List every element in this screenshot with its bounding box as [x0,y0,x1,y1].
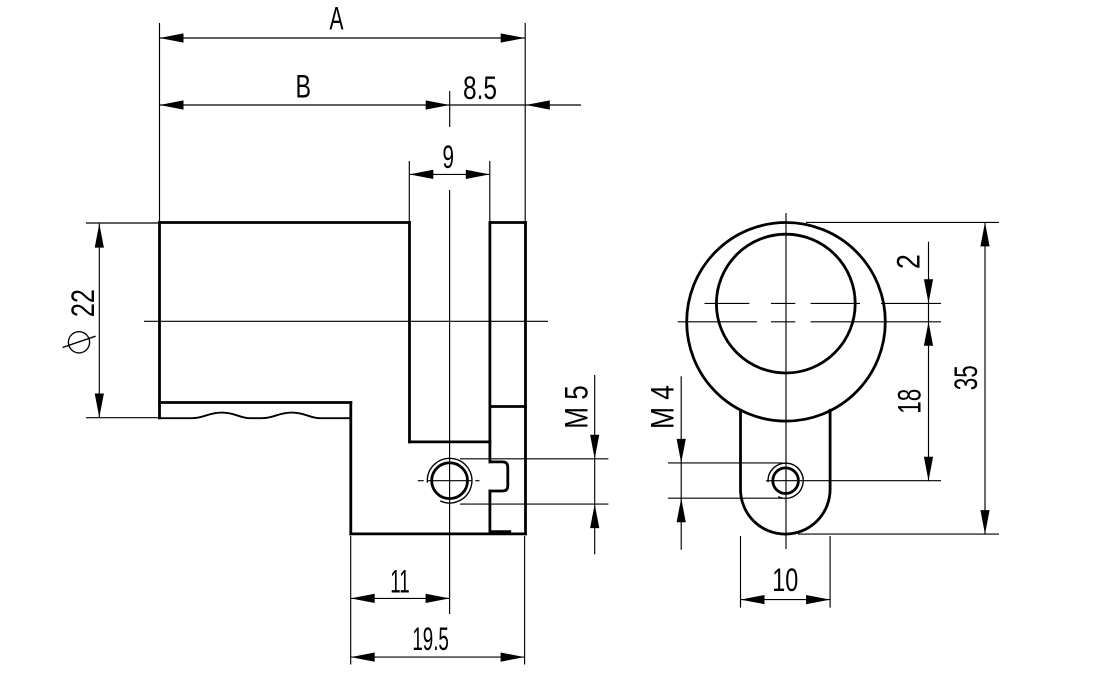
slot left wall [408,223,411,442]
dim M4 arrows [677,439,686,463]
dim 35 extension lines [798,222,999,534]
M4 hole horizontal centerline [766,480,941,482]
dim M5 extension lines [460,459,608,504]
dim M4 extension lines [668,463,783,498]
dim M5 line [594,375,596,554]
dim 19.5 line [351,656,525,658]
flange top edge [490,221,526,224]
dim 19.5 arrows [351,653,375,662]
dim 8.5 line with tail [450,104,581,106]
profile lobe [741,410,831,534]
dim 2 and 18 shared line [928,242,930,481]
svg-text:B: B [296,68,312,104]
dim 9 extension lines [409,161,490,222]
dim 8.5 arrow [526,100,550,109]
svg-text:A: A [330,1,344,37]
dim phi22 arrows [95,224,104,248]
svg-text:22: 22 [65,289,101,317]
right view vertical centerline [785,213,787,549]
dim 10 extension lines [741,536,831,608]
dim B line [160,104,450,106]
flange chord line [490,405,526,408]
fin step vertical edge [349,403,352,534]
break (wavy) line [160,413,351,419]
dim A line [160,37,525,39]
dim phi22 extension lines [86,223,159,418]
svg-text:M 5: M 5 [558,385,594,429]
dim A extension lines [160,23,526,223]
M5 hole vertical centerline [449,190,451,614]
dim A arrows [160,33,184,42]
dim 11 arrows [351,594,375,603]
dim 19.5 extension line [524,536,526,665]
dim 10 arrows [741,595,765,604]
svg-text:9: 9 [442,139,454,175]
dim B arrows [160,100,184,109]
M5 hole centerline tick at B dim [449,91,451,127]
dim M4 line [680,376,682,550]
left view horizontal centerline [144,320,548,322]
inner bore circle [716,234,855,373]
dim 2 arrow [924,279,933,303]
right face [524,223,527,534]
dim 11 line [351,597,450,599]
body left face [158,223,161,418]
slot bottom [410,440,490,443]
inner bore horizontal centerline [705,302,942,304]
svg-text:11: 11 [390,563,410,599]
svg-text:35: 35 [948,365,984,390]
dim 18 arrows [924,322,933,346]
dim 10 line [741,599,831,601]
flange left edge lower [488,491,491,532]
svg-text:M 4: M 4 [645,385,681,429]
dim 9 arrows [409,170,433,179]
dim 9 line [409,173,490,175]
svg-text:18: 18 [891,389,927,414]
svg-text:10: 10 [772,562,798,598]
M5 thread arc [427,458,472,503]
flange left edge upper [488,223,491,462]
body top edge [160,221,410,224]
svg-text:19.5: 19.5 [412,621,449,657]
svg-text:2: 2 [891,254,927,269]
dim M5 arrows [590,435,599,459]
body bottom chord line [160,401,351,404]
dim 35 arrows [980,222,989,246]
part bottom edge [351,533,526,536]
svg-text:8.5: 8.5 [463,70,497,106]
M5 hole circle [432,463,468,499]
dim phi22 diameter symbol [68,332,89,353]
outer circle [687,222,886,421]
dim 11 extension line [350,536,352,665]
thread pocket bump [490,462,508,491]
outer circle horizontal centerline [678,321,941,323]
dim 35 line [984,222,986,534]
channel bottom [490,530,510,533]
M5 hole horizontal centerline dashes [418,480,480,482]
M4 thread arc [768,463,803,498]
dim phi22 line [98,224,100,418]
M4 hole circle [773,468,799,494]
